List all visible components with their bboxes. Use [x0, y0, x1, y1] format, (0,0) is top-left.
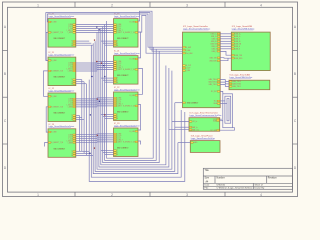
left chain wires — [44, 32, 49, 146]
svg-text:Logic_SmartSlaveGateDriver: Logic_SmartSlaveGateDriver — [48, 89, 74, 92]
svg-text:I_CLP: I_CLP — [116, 63, 121, 65]
svg-text:Logic_SmartSlaveGateDriver: Logic_SmartSlaveGateDriver — [48, 54, 74, 57]
svg-text:E_CLP: E_CLP — [186, 65, 191, 67]
sheet symbol IC13 (left col driver) — [48, 124, 76, 158]
svg-text:E_GMI: E_GMI — [130, 22, 136, 24]
svg-text:USB_G: USB_G — [235, 46, 241, 48]
svg-text:T: T — [71, 79, 72, 81]
svg-text:USB_ID: USB_ID — [235, 41, 242, 43]
svg-text:4: 4 — [260, 3, 262, 7]
svg-text:E: E — [71, 83, 72, 85]
svg-text:I_GM_T: I_GM_T — [116, 104, 122, 106]
svg-text:Logic_SmartSlaveGateDriver: Logic_SmartSlaveGateDriver — [114, 88, 140, 91]
svg-text:I_GM: I_GM — [185, 70, 190, 72]
svg-text:Title: Title — [205, 169, 210, 172]
sheet frame — [3, 2, 298, 197]
svg-text:I_MST: I_MST — [67, 142, 72, 144]
svg-text:I_CLP: I_CLP — [116, 136, 121, 138]
svg-text:IC8_Logic_SmartPower: IC8_Logic_SmartPower — [191, 134, 213, 137]
svg-text:E_GMI: E_GMI — [130, 59, 136, 61]
controller-USB wires — [220, 34, 231, 61]
svg-text:IC7_Logic_SmartThermometer: IC7_Logic_SmartThermometer — [189, 112, 218, 115]
svg-text:C:\Elektro\..\Logic_SmartCtrl.: C:\Elektro\..\Logic_SmartCtrl.SchDoc — [217, 187, 254, 190]
svg-text:T: T — [117, 114, 118, 116]
svg-text:I2C_INT: I2C_INT — [210, 130, 216, 132]
svg-text:SSD CONNECT: SSD CONNECT — [54, 148, 66, 150]
svg-text:USB_G: USB_G — [211, 46, 217, 48]
svg-text:E_SHUNT_T_M: E_SHUNT_T_M — [123, 32, 135, 34]
sheet symbol IC3 USB — [231, 25, 270, 71]
svg-text:Logic_SmartSlaveGateDriver: Logic_SmartSlaveGateDriver — [48, 15, 74, 18]
svg-text:USB_V: USB_V — [212, 38, 218, 40]
svg-text:E: E — [71, 119, 72, 121]
svg-text:4: 4 — [260, 193, 262, 197]
svg-text:USB_D+: USB_D+ — [211, 33, 217, 35]
svg-text:SSD CONNECT: SSD CONNECT — [117, 112, 129, 114]
svg-text:B: B — [294, 72, 296, 76]
svg-text:SSD CONNECT: SSD CONNECT — [54, 38, 66, 40]
svg-text:I_GMI: I_GMI — [116, 134, 121, 136]
svg-text:SSD CONNECT: SSD CONNECT — [54, 77, 66, 79]
svg-text:E_GMI: E_GMI — [51, 132, 57, 134]
svg-text:USB_RXD: USB_RXD — [209, 60, 217, 62]
svg-text:I_GMI: I_GMI — [116, 61, 121, 63]
svg-text:USB_P: USB_P — [212, 51, 217, 53]
svg-text:I_GMI: I_GMI — [116, 24, 121, 26]
svg-text:Logic_SmartCustom-sensor.SchDo: Logic_SmartCustom-sensor.SchDoc — [189, 114, 221, 117]
svg-text:Logic_SmartUSB.SchDoc: Logic_SmartUSB.SchDoc — [232, 28, 255, 31]
svg-text:I_CLP: I_CLP — [67, 136, 72, 138]
svg-text:I_GM_T: I_GM_T — [66, 105, 72, 107]
svg-text:USB_S: USB_S — [235, 48, 240, 50]
gap bus and bottom fan — [80, 21, 185, 181]
svg-text:T: T — [71, 151, 72, 153]
P-box link wires — [169, 103, 190, 143]
svg-text:IC3_Logic_SmartUSB: IC3_Logic_SmartUSB — [232, 25, 253, 28]
svg-text:E: E — [71, 45, 72, 47]
sheet symbol IC20 (mid col driver) — [114, 14, 141, 48]
svg-text:E: E — [71, 155, 72, 157]
svg-text:1: 1 — [37, 193, 39, 197]
svg-text:T: T — [117, 150, 118, 152]
sheet symbol IC4 CAN — [229, 73, 270, 89]
svg-text:E_GMI: E_GMI — [130, 131, 136, 133]
svg-text:Revision: Revision — [268, 178, 278, 180]
svg-text:T: T — [71, 115, 72, 117]
svg-text:USB_S: USB_S — [212, 48, 217, 50]
svg-text:E: E — [117, 82, 118, 84]
svg-text:I_MST: I_MST — [67, 71, 72, 73]
svg-text:T: T — [71, 41, 72, 43]
controller-CAN wires — [220, 80, 229, 87]
svg-text:E: E — [117, 118, 118, 120]
svg-text:E_SHUNT_T_M: E_SHUNT_T_M — [123, 141, 135, 143]
svg-text:Sheet of: Sheet of — [255, 184, 264, 187]
svg-text:Number: Number — [217, 177, 225, 180]
svg-text:IC2_Logic_SmartController: IC2_Logic_SmartController — [183, 25, 208, 28]
svg-text:I_GMI: I_GMI — [185, 50, 190, 52]
svg-text:I_GMI: I_GMI — [67, 24, 72, 26]
svg-text:2: 2 — [111, 3, 113, 7]
sheet symbol IC8 power — [190, 134, 220, 152]
svg-text:T: T — [117, 41, 118, 43]
svg-text:E_SHUNT_T_M: E_SHUNT_T_M — [51, 106, 63, 108]
junction dots — [89, 27, 105, 154]
svg-text:I_MST: I_MST — [116, 32, 121, 34]
svg-text:B: B — [4, 72, 6, 76]
sheet symbol IC2 controller — [183, 25, 221, 108]
svg-text:Logic_SmartSlaveGateDriver: Logic_SmartSlaveGateDriver — [114, 15, 140, 18]
svg-text:I_MST: I_MST — [116, 106, 121, 108]
svg-text:E_GMI: E_GMI — [51, 22, 57, 24]
svg-text:I_MST: I_MST — [116, 69, 121, 71]
svg-text:SSD CONNECT: SSD CONNECT — [117, 75, 129, 77]
svg-text:I_MST: I_MST — [116, 142, 121, 144]
svg-text:Logic_SmartPower.SchDoc: Logic_SmartPower.SchDoc — [191, 137, 215, 140]
svg-text:E_SHUNT_T_M: E_SHUNT_T_M — [123, 69, 135, 71]
top bus harness — [46, 11, 183, 60]
svg-text:I_CLP: I_CLP — [116, 26, 121, 28]
svg-text:USB_TXD: USB_TXD — [209, 57, 217, 59]
svg-text:Logic_SmartSlaveGateDriver: Logic_SmartSlaveGateDriver — [114, 124, 140, 127]
svg-text:I_GM_T: I_GM_T — [116, 67, 122, 69]
svg-text:I_CLP: I_CLP — [67, 65, 72, 67]
svg-text:I_GMI: I_GMI — [116, 98, 121, 100]
row mesh wires — [76, 25, 114, 156]
svg-text:Logic_SmartController.SchDoc: Logic_SmartController.SchDoc — [183, 28, 210, 31]
svg-text:I_CLP: I_CLP — [185, 68, 190, 70]
svg-text:Drawn By:: Drawn By: — [255, 187, 265, 190]
svg-text:3: 3 — [186, 193, 188, 197]
svg-text:I_GMI: I_GMI — [67, 63, 72, 65]
title block — [203, 168, 292, 189]
svg-text:SSD CONNECT: SSD CONNECT — [117, 38, 129, 40]
svg-text:E: E — [117, 45, 118, 47]
svg-text:SCL: SCL — [214, 101, 217, 103]
svg-text:I_MST: I_MST — [67, 107, 72, 109]
sheet symbol IC23 (mid col driver) — [114, 123, 141, 157]
svg-text:SSD CONNECT: SSD CONNECT — [117, 148, 129, 150]
svg-text:I_MST: I_MST — [67, 32, 72, 34]
svg-text:I2C_INT: I2C_INT — [211, 91, 217, 93]
svg-text:T: T — [117, 78, 118, 80]
I2C loop wires — [220, 91, 235, 130]
sheet symbol IC7 thermometer — [189, 112, 222, 132]
svg-text:I_CLP: I_CLP — [67, 101, 72, 103]
svg-text:SSD CONNECT: SSD CONNECT — [54, 113, 66, 115]
svg-text:USB_ID: USB_ID — [211, 41, 218, 43]
svg-text:E_SHUNT_T_M: E_SHUNT_T_M — [51, 71, 63, 73]
svg-text:I_GM_T: I_GM_T — [116, 30, 122, 32]
svg-text:I_CLP: I_CLP — [116, 100, 121, 102]
mid chain wires — [138, 32, 143, 144]
sheet symbol IC10 (left col driver) — [48, 14, 76, 48]
sheet symbol IC11 (left col driver) — [48, 52, 76, 86]
svg-text:USB_D-: USB_D- — [235, 36, 241, 38]
svg-text:3: 3 — [186, 3, 188, 7]
svg-text:U_GMI: U_GMI — [186, 47, 192, 49]
svg-text:USB_VB: USB_VB — [235, 43, 241, 45]
svg-text:IC4_Logic_SmartCAN: IC4_Logic_SmartCAN — [229, 73, 250, 76]
svg-text:Logic_SmartCAN.SchDoc: Logic_SmartCAN.SchDoc — [229, 76, 252, 79]
svg-text:I_GM_T: I_GM_T — [66, 140, 72, 142]
svg-text:Logic_SmartSlaveGateDriver: Logic_SmartSlaveGateDriver — [48, 125, 74, 128]
svg-text:E_SHUNT_T_M: E_SHUNT_T_M — [123, 105, 135, 107]
svg-text:1: 1 — [37, 3, 39, 7]
svg-text:SSD CONNECT: SSD CONNECT — [187, 102, 199, 104]
svg-text:2: 2 — [111, 193, 113, 197]
sheet symbol IC21 (mid col driver) — [114, 51, 141, 85]
svg-text:E: E — [117, 154, 118, 156]
svg-text:I2C_In: I2C_In — [192, 121, 197, 123]
svg-text:USB_RXD: USB_RXD — [235, 58, 243, 60]
svg-text:I_CLP: I_CLP — [67, 26, 72, 28]
svg-text:Size: Size — [205, 178, 210, 180]
svg-text:USB_D+: USB_D+ — [235, 33, 241, 35]
sheet symbol IC12 (left col driver) — [48, 88, 76, 122]
sheet symbol IC22 (mid col driver) — [114, 87, 141, 121]
svg-text:E_GMI: E_GMI — [51, 60, 57, 62]
svg-text:USB_D-: USB_D- — [211, 36, 217, 38]
svg-text:Logic_SmartSlaveGateDriver: Logic_SmartSlaveGateDriver — [114, 52, 140, 55]
svg-text:E_GMI: E_GMI — [51, 96, 57, 98]
svg-text:USB_VB: USB_VB — [211, 43, 217, 45]
svg-text:E_GMI: E_GMI — [130, 95, 136, 97]
svg-text:File:: File: — [205, 188, 210, 190]
svg-text:I_GM_T: I_GM_T — [66, 30, 72, 32]
svg-text:E_SHUNT_T_M: E_SHUNT_T_M — [51, 142, 63, 144]
svg-text:I_GMI: I_GMI — [67, 134, 72, 136]
svg-text:6/3/2010: 6/3/2010 — [217, 185, 226, 187]
svg-text:E_SHUNT_T_M: E_SHUNT_T_M — [51, 32, 63, 34]
svg-text:I_GM_T: I_GM_T — [116, 140, 122, 142]
svg-text:Date:: Date: — [205, 184, 211, 187]
svg-text:I_GMI: I_GMI — [67, 99, 72, 101]
svg-text:USB_TXD: USB_TXD — [235, 55, 243, 57]
svg-text:I_GM_T: I_GM_T — [66, 69, 72, 71]
